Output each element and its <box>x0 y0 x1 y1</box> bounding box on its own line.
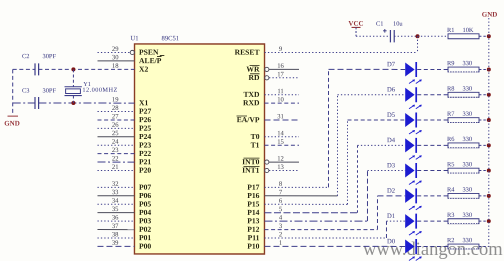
svg-text:D2: D2 <box>387 188 395 195</box>
svg-text:10: 10 <box>277 97 284 104</box>
svg-text:10K: 10K <box>463 27 474 34</box>
wire P11 to LED <box>264 237 386 239</box>
pin 24 P23 (left) <box>97 144 134 146</box>
junction X2-crystal <box>71 67 75 71</box>
pin 26 P25 (left) <box>98 127 135 129</box>
wire R6 to ground rail <box>479 144 489 146</box>
svg-text:330: 330 <box>462 212 472 219</box>
crystal Y1 <box>72 69 74 86</box>
svg-text:D7: D7 <box>387 61 396 68</box>
pin 27 P26 (left) <box>98 119 135 121</box>
resistor R1 <box>448 34 479 39</box>
LED D5 <box>405 113 414 127</box>
wire D2 cathode to R4 <box>417 195 448 197</box>
pin 9 RESET (right) <box>265 52 418 54</box>
svg-text:2: 2 <box>279 231 282 238</box>
svg-text:30PF: 30PF <box>43 53 57 60</box>
svg-text:3: 3 <box>279 223 283 230</box>
pin 16 WR (right) <box>269 68 299 70</box>
svg-text:D0: D0 <box>387 238 396 245</box>
wire P16 to LED <box>264 195 337 197</box>
pin 22 P21 (left) <box>97 161 134 163</box>
pin 30 ALE/P (left) <box>98 60 135 62</box>
svg-text:RESET: RESET <box>235 48 260 57</box>
pin 15 T1 (right) <box>264 144 299 146</box>
svg-text:X2: X2 <box>139 65 148 74</box>
svg-text:23: 23 <box>112 147 119 154</box>
wire P15 to LED <box>264 203 347 205</box>
svg-text:P00: P00 <box>139 242 151 251</box>
svg-text:R1: R1 <box>447 27 454 34</box>
junction rail top <box>487 34 491 38</box>
wire R5 to ground rail <box>479 170 489 172</box>
svg-text:R7: R7 <box>447 111 455 118</box>
wire R4 to ground rail <box>479 195 489 197</box>
capacitor C1 (10u) <box>389 30 391 42</box>
LED D0 <box>405 239 414 253</box>
svg-text:36: 36 <box>112 214 119 221</box>
pin 13 INT1 (right) <box>269 170 299 172</box>
svg-text:D5: D5 <box>387 112 396 119</box>
svg-text:T1: T1 <box>251 140 260 149</box>
svg-text:11: 11 <box>277 88 283 95</box>
svg-text:35: 35 <box>112 206 119 213</box>
svg-text:13: 13 <box>277 164 284 171</box>
svg-text:37: 37 <box>112 223 119 230</box>
junction at rail row R4 <box>487 194 491 198</box>
wire P14 to LED <box>264 212 357 214</box>
svg-text:330: 330 <box>463 85 473 92</box>
resistor R2 <box>448 244 479 249</box>
svg-text:25: 25 <box>112 130 119 137</box>
pin 29 PSEN (left) <box>98 51 131 53</box>
svg-text:INT1: INT1 <box>242 166 260 175</box>
wire junction to R1 <box>418 35 449 37</box>
wire R7 to ground rail <box>479 119 489 121</box>
svg-text:31: 31 <box>277 113 284 120</box>
svg-text:16: 16 <box>277 63 284 70</box>
LED D3 <box>405 164 414 178</box>
svg-text:28: 28 <box>112 105 119 112</box>
wire D5 cathode to R7 <box>417 119 448 121</box>
svg-text:12.000MHZ: 12.000MHZ <box>82 87 117 94</box>
svg-text:5: 5 <box>279 206 283 213</box>
watermark www.diangon.com <box>363 240 503 261</box>
wire D4 cathode to R6 <box>417 144 448 146</box>
resistor R5 <box>448 168 479 173</box>
svg-text:R6: R6 <box>447 136 454 143</box>
svg-text:9: 9 <box>279 46 283 53</box>
svg-text:P20: P20 <box>139 166 151 175</box>
wire R3 to ground rail <box>479 220 489 222</box>
svg-text:30: 30 <box>112 54 119 61</box>
LED D4 <box>405 138 414 152</box>
svg-text:R8: R8 <box>447 85 454 92</box>
svg-text:330: 330 <box>463 111 473 118</box>
svg-text:D1: D1 <box>387 213 395 220</box>
junction X1-crystal <box>71 101 75 105</box>
svg-text:38: 38 <box>112 231 119 238</box>
svg-text:R4: R4 <box>447 187 455 194</box>
junction at rail row R7 <box>487 118 491 122</box>
svg-text:C3: C3 <box>22 88 29 95</box>
wire D3 cathode to R5 <box>417 170 448 172</box>
ground rail <box>488 18 490 246</box>
svg-text:C1: C1 <box>376 21 383 28</box>
svg-text:RD: RD <box>249 73 260 82</box>
capacitor C3 (30PF) <box>34 97 36 109</box>
pin 32 P07 (left) <box>97 186 134 188</box>
pin 17 RD (right) <box>269 77 299 79</box>
resistor R6 <box>448 143 479 148</box>
pin 39 P00 (left) <box>97 245 134 247</box>
svg-text:24: 24 <box>112 139 119 146</box>
svg-text:D4: D4 <box>387 137 396 144</box>
pin 14 T0 (right) <box>264 136 299 138</box>
pin 36 P03 (left) <box>97 220 134 222</box>
svg-text:89C51: 89C51 <box>162 35 180 42</box>
svg-text:6: 6 <box>279 198 283 205</box>
svg-text:330: 330 <box>462 161 472 168</box>
pin 21 P20 (left) <box>97 169 134 171</box>
pin 11 TXD (right) <box>265 94 300 96</box>
LED D2 <box>405 189 414 203</box>
resistor R4 <box>448 193 479 198</box>
svg-text:29: 29 <box>112 46 119 53</box>
wire R1 to rail <box>479 35 489 37</box>
svg-text:R5: R5 <box>447 161 454 168</box>
LED D7 <box>405 62 414 76</box>
wire X1 row <box>13 102 35 104</box>
svg-text:EA/VP: EA/VP <box>237 115 260 124</box>
svg-text:17: 17 <box>277 71 284 78</box>
op-amp U1 89C51 microcontroller body <box>134 44 264 254</box>
wire VCC to C1 <box>356 35 390 37</box>
svg-text:P10: P10 <box>247 242 259 251</box>
svg-text:330: 330 <box>462 237 472 244</box>
pin 23 P22 (left) <box>97 153 134 155</box>
wire C1 to junction <box>394 35 417 37</box>
svg-text:30PF: 30PF <box>43 88 57 95</box>
resistor R3 <box>448 219 479 224</box>
svg-text:14: 14 <box>277 130 284 137</box>
svg-text:VCC: VCC <box>348 20 363 28</box>
svg-text:15: 15 <box>277 139 284 146</box>
wire P17 to LED <box>264 186 328 188</box>
svg-text:21: 21 <box>112 164 119 171</box>
svg-text:4: 4 <box>279 215 283 222</box>
wire R8 to ground rail <box>479 94 489 96</box>
wire D1 cathode to R3 <box>417 220 448 222</box>
junction at rail row R3 <box>487 219 491 223</box>
svg-text:10u: 10u <box>393 21 403 28</box>
svg-text:330: 330 <box>462 187 472 194</box>
wire X2 row <box>13 68 35 70</box>
pin 35 P04 (left) <box>97 212 134 214</box>
svg-text:D3: D3 <box>387 162 396 169</box>
wire D6 cathode to R8 <box>417 94 448 96</box>
junction at rail row R9 <box>487 67 491 71</box>
svg-text:33: 33 <box>112 189 119 196</box>
pin 34 P05 (left) <box>97 203 134 205</box>
svg-text:GND: GND <box>482 11 498 19</box>
svg-text:32: 32 <box>112 181 119 188</box>
wire RESET vertical <box>417 36 419 52</box>
svg-text:U1: U1 <box>131 35 139 42</box>
svg-text:22: 22 <box>112 155 119 162</box>
pin 12 INT0 (right) <box>269 161 299 163</box>
wire P13 to LED <box>264 220 367 222</box>
svg-text:D6: D6 <box>387 87 396 94</box>
svg-text:27: 27 <box>112 113 119 120</box>
LED D1 <box>405 214 414 228</box>
svg-text:R3: R3 <box>447 212 454 219</box>
svg-text:18: 18 <box>112 63 119 70</box>
svg-text:C2: C2 <box>22 53 29 60</box>
svg-text:GND: GND <box>4 120 20 128</box>
wire D0 cathode to R2 <box>417 245 448 247</box>
junction RST node <box>416 34 420 38</box>
svg-text:330: 330 <box>462 136 472 143</box>
wire R2 to ground rail <box>479 245 489 247</box>
pin 38 P01 (left) <box>97 237 134 239</box>
resistor R9 <box>448 67 479 72</box>
junction at rail row R5 <box>487 169 491 173</box>
svg-text:1: 1 <box>279 240 282 247</box>
svg-text:RXD: RXD <box>243 98 260 107</box>
pin 10 RXD (right) <box>265 102 300 104</box>
pin 25 P24 (left) <box>97 136 134 138</box>
pin 33 P06 (left) <box>97 195 134 197</box>
svg-text:8: 8 <box>279 181 283 188</box>
wire P12 to LED <box>264 229 377 231</box>
svg-text:7: 7 <box>279 189 283 196</box>
wire R9 to ground rail <box>479 68 489 70</box>
wire P10 to LED D0 <box>264 245 405 247</box>
resistor R8 <box>448 92 479 97</box>
pin 28 P27 (left) <box>98 110 135 112</box>
wire D7 cathode to R9 <box>417 68 448 70</box>
svg-text:34: 34 <box>112 198 119 205</box>
pin 37 P02 (left) <box>97 229 134 231</box>
svg-text:R9: R9 <box>447 60 454 67</box>
LED D6 <box>405 88 414 102</box>
pin 31 EA/VP (right) <box>265 119 300 121</box>
svg-text:R2: R2 <box>447 237 454 244</box>
svg-text:19: 19 <box>112 96 119 103</box>
junction at rail row R6 <box>487 143 491 147</box>
svg-text:26: 26 <box>112 122 119 129</box>
junction at rail row R8 <box>487 93 491 97</box>
resistor R7 <box>448 118 479 123</box>
capacitor C2 (30PF) <box>34 63 36 75</box>
svg-text:12: 12 <box>277 156 284 163</box>
ground symbol (left) <box>8 115 18 117</box>
svg-text:39: 39 <box>112 240 119 247</box>
svg-text:330: 330 <box>463 60 473 67</box>
left ground rail <box>12 69 14 115</box>
